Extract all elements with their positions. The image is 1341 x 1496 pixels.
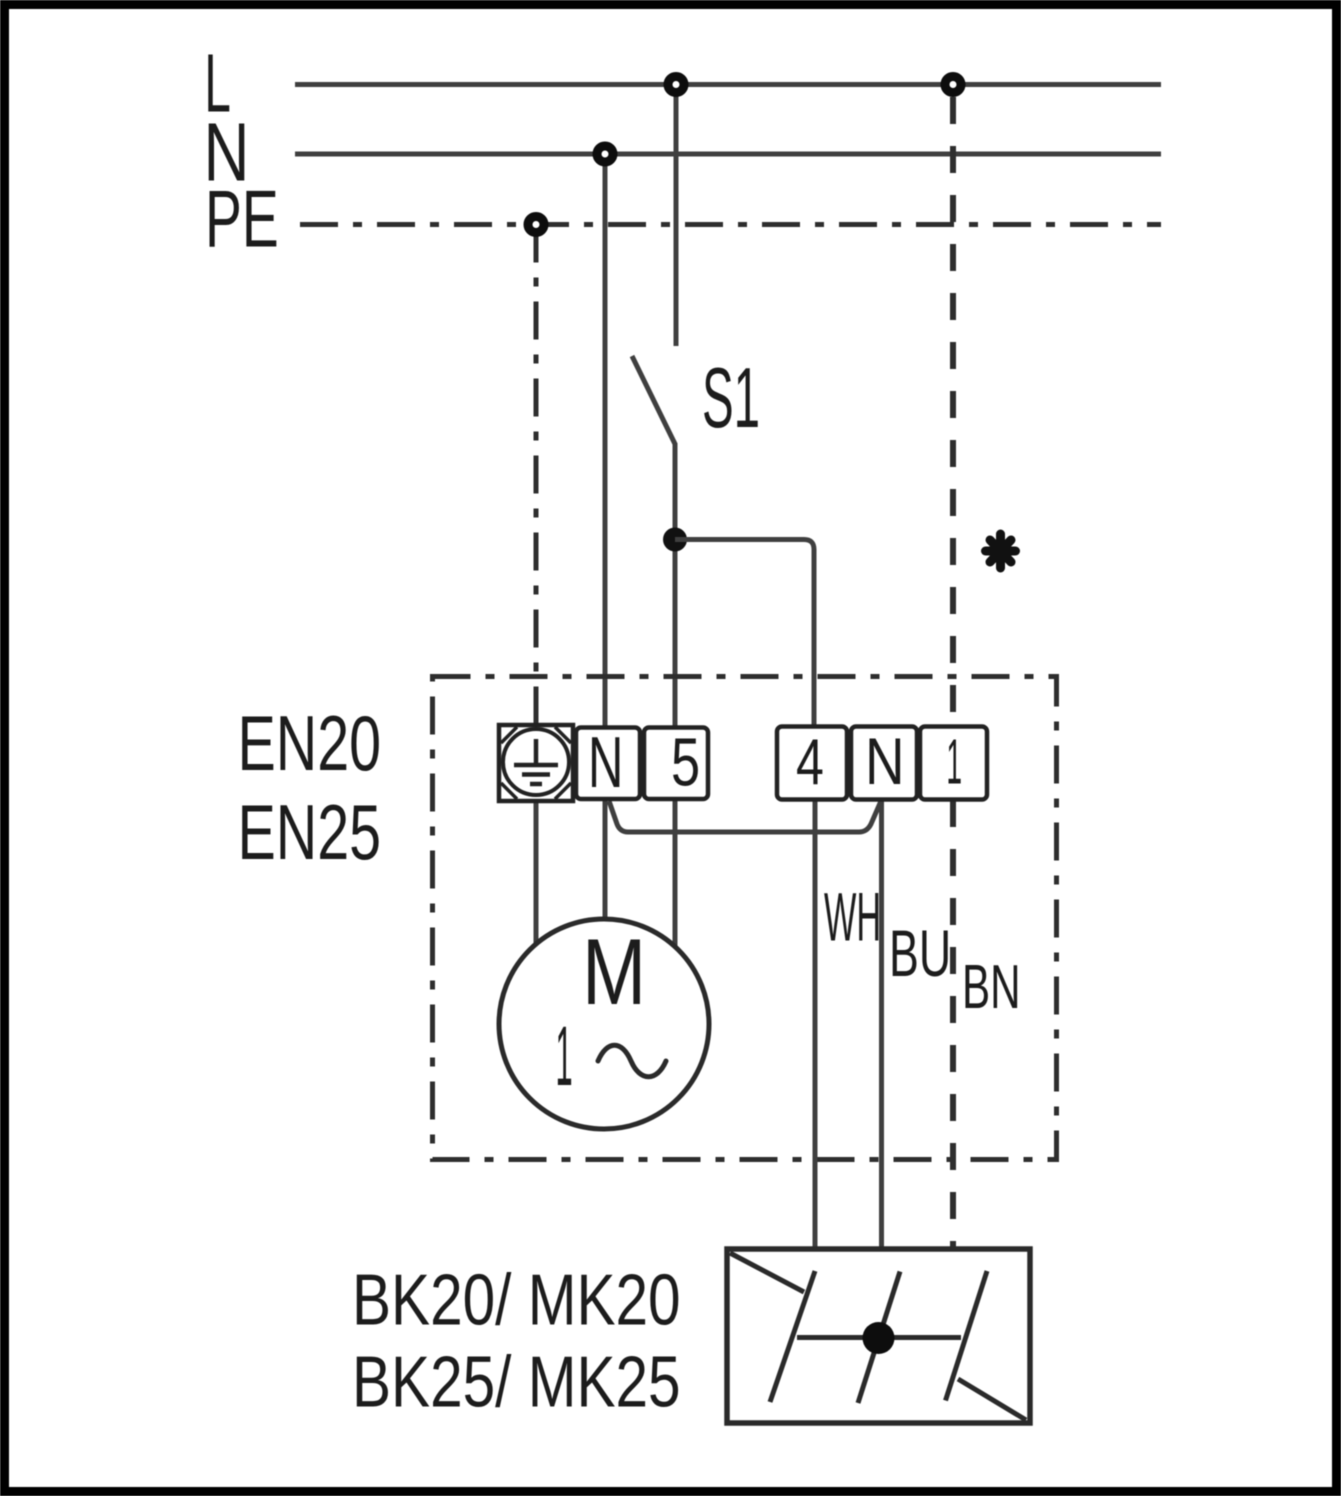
damper corner diag BR (958, 1379, 1026, 1420)
bus PE (300, 222, 1161, 227)
wire BU (terminal N to damper) (879, 800, 884, 1251)
link wire N-N (below terminals) (609, 801, 881, 832)
terminal 1 (grey, optional) (920, 727, 987, 800)
node N (597, 146, 613, 162)
motor tilde (598, 1045, 666, 1077)
svg-text:BK20/ MK20: BK20/ MK20 (352, 1260, 681, 1340)
wire earth to motor (534, 801, 539, 946)
label N (204, 105, 250, 198)
label EN20 (238, 699, 382, 787)
svg-text:N: N (588, 723, 623, 804)
damper blade 3 (946, 1271, 988, 1401)
earth symbol (514, 739, 558, 784)
label L (204, 38, 230, 130)
bus N (295, 152, 1161, 157)
wire N to motor (603, 799, 608, 921)
label EN25 (238, 788, 382, 876)
svg-text:N: N (865, 724, 905, 798)
terminal earth box (499, 725, 573, 801)
bus L (295, 82, 1161, 87)
junction dot (663, 528, 687, 552)
svg-text:S1: S1 (702, 350, 760, 445)
label BK25/ MK25 (352, 1342, 681, 1422)
svg-text:4: 4 (796, 726, 824, 799)
svg-text:PE: PE (205, 173, 279, 264)
wire switch to terminal 5 (673, 443, 678, 728)
wire 5 to motor (673, 799, 678, 948)
label BK20/ MK20 (352, 1260, 681, 1340)
wire BN dashed (terminal 1 to damper) (950, 800, 956, 1247)
wire PE drop (dash-dot) (534, 225, 539, 726)
node L1 (668, 77, 684, 93)
damper blade 2 (858, 1272, 900, 1404)
wire WH (terminal 4 to damper) (813, 800, 818, 1251)
terminal 4 (777, 727, 847, 800)
label BN (962, 953, 1021, 1022)
asterisk (986, 534, 1016, 568)
terminal N (left group) (576, 728, 640, 800)
damper corner diag TL (730, 1253, 804, 1292)
svg-text:1: 1 (946, 727, 962, 798)
wire L drop to switch (674, 85, 679, 347)
label S1 (702, 350, 760, 445)
motor M 1~ (499, 919, 709, 1129)
svg-text:1: 1 (556, 1011, 573, 1104)
terminal 5 (644, 728, 708, 800)
damper blade 1 (770, 1271, 815, 1402)
damper shaft dot (863, 1322, 895, 1354)
wire jumper to terminal 4 (675, 540, 814, 729)
svg-text:EN25: EN25 (238, 788, 382, 876)
svg-text:M: M (582, 920, 646, 1025)
label PE (205, 173, 279, 264)
wire N drop (603, 154, 608, 728)
svg-text:5: 5 (671, 724, 700, 800)
svg-text:BN: BN (962, 953, 1021, 1022)
svg-text:BU: BU (889, 916, 951, 990)
enclosure EN20/EN25 (dash-dot box) (433, 677, 1057, 1160)
label BU (889, 916, 951, 990)
damper shaft (797, 1335, 961, 1340)
svg-text:WH: WH (824, 879, 881, 956)
node L2 (945, 77, 961, 93)
switch S1 blade (632, 356, 675, 444)
earth box corner hatches (501, 727, 571, 799)
label WH (824, 879, 881, 956)
terminal N (right group) (851, 727, 917, 800)
damper actuator box (727, 1249, 1030, 1423)
svg-text:BK25/ MK25: BK25/ MK25 (352, 1342, 681, 1422)
node PE (528, 217, 544, 233)
wire dashed drop (BN upper) (950, 97, 956, 726)
svg-text:EN20: EN20 (238, 699, 382, 787)
earth terminal circle (503, 729, 569, 795)
